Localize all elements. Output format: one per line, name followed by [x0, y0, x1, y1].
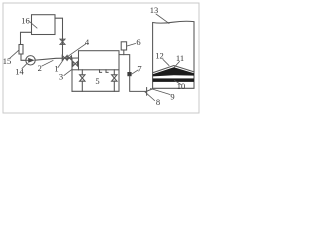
leader 13 — [156, 14, 169, 24]
valve V1 on vertical pipe — [60, 39, 65, 44]
thin peak line inside tank — [153, 66, 194, 73]
leader 14 — [22, 64, 27, 69]
svg-text:10: 10 — [177, 81, 186, 91]
pipe below dot to tank — [130, 76, 147, 91]
leader 9 — [151, 89, 171, 95]
wire pump to valve cluster — [35, 58, 78, 60]
border frame — [3, 3, 199, 113]
comp 6 — [121, 42, 126, 50]
tank 13 shell — [153, 21, 194, 88]
comp 6 stub — [123, 50, 125, 55]
svg-text:12: 12 — [155, 50, 164, 60]
vertical line at x=72 down to bottom pipe — [71, 58, 73, 91]
leader 4 — [67, 44, 86, 57]
svg-text:6: 6 — [136, 37, 140, 47]
valve V2 — [62, 56, 67, 61]
svg-text:7: 7 — [137, 63, 141, 73]
svg-text:9: 9 — [170, 92, 174, 102]
leader 16 — [30, 22, 37, 28]
lower stub valve into vessel — [72, 63, 79, 65]
svg-text:15: 15 — [3, 56, 12, 66]
pump 14 — [26, 56, 35, 65]
box 16 — [32, 15, 56, 35]
resistor 15 — [19, 45, 23, 55]
svg-text:5: 5 — [95, 76, 99, 86]
wire box16-left to resistor — [21, 32, 32, 44]
svg-text:2: 2 — [38, 63, 42, 73]
wire box16-right to down pipe — [55, 18, 63, 58]
leader 15 — [10, 51, 19, 59]
bottom loop pipe — [72, 70, 119, 92]
left hanging valve — [81, 70, 83, 92]
valve V3 — [67, 56, 71, 60]
labels — [3, 5, 186, 107]
leader 12 — [163, 60, 169, 66]
leader 3 — [64, 69, 72, 75]
leader 10 — [175, 81, 182, 85]
vessel right exit pipe — [119, 55, 130, 73]
dot 7 — [127, 72, 131, 76]
leader 1 — [58, 60, 64, 68]
leader 8 — [145, 92, 155, 101]
wire resistor to pump — [21, 54, 26, 60]
svg-text:3: 3 — [59, 71, 63, 81]
svg-text:14: 14 — [15, 66, 24, 76]
connector into vessel bottom corner — [72, 69, 79, 71]
svg-text:13: 13 — [150, 5, 159, 15]
svg-text:11: 11 — [176, 53, 184, 63]
leader 11 — [175, 62, 180, 68]
ticks on vessel bottom — [100, 70, 109, 73]
vessel 4 — [79, 51, 120, 70]
black band layer — [153, 78, 194, 82]
leader 2 — [42, 61, 53, 67]
black wedge layer — [153, 67, 194, 76]
right hanging valve — [113, 70, 115, 92]
leader 7 — [132, 70, 138, 74]
svg-text:8: 8 — [156, 97, 160, 107]
leader 6 — [127, 44, 136, 47]
svg-text:16: 16 — [21, 16, 30, 26]
